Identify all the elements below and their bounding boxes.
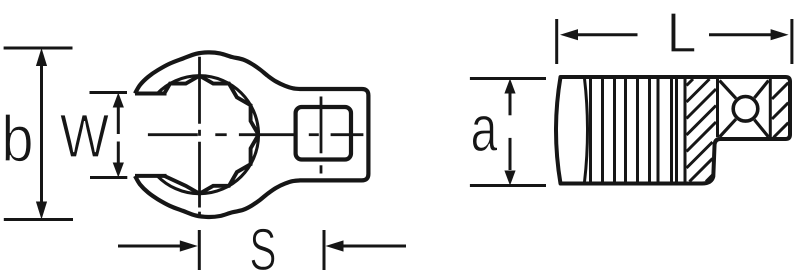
svg-text:S: S bbox=[249, 216, 276, 276]
svg-text:b: b bbox=[1, 103, 33, 176]
svg-text:L: L bbox=[666, 1, 696, 65]
svg-text:W: W bbox=[60, 103, 110, 171]
svg-text:a: a bbox=[471, 93, 499, 166]
